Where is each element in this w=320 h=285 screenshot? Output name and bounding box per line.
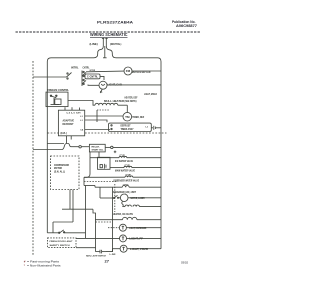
dispenser feed bus — [112, 187, 114, 251]
left feeder to valves — [89, 152, 91, 174]
svg-text:LIGHT, FRZR: LIGHT, FRZR — [130, 248, 148, 251]
inline connector pair — [96, 250, 107, 254]
svg-text:DEFROST: DEFROST — [121, 126, 132, 128]
svg-text:UPPER: UPPER — [90, 70, 96, 72]
wire bottom link — [53, 221, 73, 223]
jog to dispenser valve row — [84, 174, 90, 177]
long feeder to lower section — [85, 186, 87, 239]
svg-text:03/02: 03/02 — [181, 260, 188, 264]
freezer control box — [46, 92, 68, 107]
wire cross run — [62, 208, 93, 210]
svg-text:MOTOR EVAP FAN: MOTOR EVAP FAN — [132, 70, 151, 74]
wire feeder C — [95, 220, 97, 248]
wire control to evap fan — [86, 70, 124, 73]
svg-text:SAFETY SWITCH: SAFETY SWITCH — [50, 244, 70, 247]
timer motor riser — [126, 105, 128, 112]
svg-text:TIMER, DEF: TIMER, DEF — [132, 116, 144, 119]
header model number — [97, 20, 133, 24]
adaptive defrost control board — [58, 110, 84, 136]
svg-text:NATL LIGHT SWITCH: NATL LIGHT SWITCH — [86, 255, 106, 258]
wire adc branch — [33, 149, 62, 151]
left cabinet dashed boundary — [32, 61, 34, 255]
cabinet light — [99, 81, 107, 89]
dashed link to dispenser bus — [96, 221, 113, 223]
drain hook below light — [100, 89, 102, 93]
wire relay down to compressor — [98, 152, 100, 157]
svg-text:(TYP): (TYP) — [123, 184, 129, 186]
svg-text:WIRING SCHEMATIC: WIRING SCHEMATIC — [90, 32, 128, 37]
wires ff light — [76, 237, 161, 239]
svg-text:START SOL: START SOL — [92, 148, 105, 151]
feeder drop — [83, 177, 85, 185]
svg-text:= Non-Illustrated Parts: = Non-Illustrated Parts — [27, 264, 61, 268]
ice chute heater row — [95, 217, 161, 219]
wire rail to compressor feed — [48, 143, 65, 145]
header rule — [16, 31, 201, 33]
power plug — [102, 38, 108, 46]
svg-text:(S.N. ALL): (S.N. ALL) — [54, 170, 65, 173]
svg-text:(LINE): (LINE) — [90, 42, 98, 46]
svg-text:RELAY,: RELAY, — [92, 145, 100, 148]
wire freezer control to heater — [68, 101, 95, 106]
svg-text:27: 27 — [105, 258, 110, 263]
dispenser boundary dashed — [114, 184, 116, 212]
svg-text:(NEUTRAL): (NEUTRAL) — [110, 42, 121, 46]
wire adc to timer motor — [85, 115, 123, 117]
wire feeder A — [69, 190, 71, 210]
adc bottom stub — [70, 136, 72, 140]
svg-text:CNTRL: CNTRL — [83, 66, 90, 70]
freezer light — [120, 245, 127, 252]
fresh food light — [120, 235, 127, 242]
svg-text:MOTOR: MOTOR — [54, 168, 62, 170]
wire adc pin C4 to timer box — [85, 129, 110, 131]
svg-text:DEFROST: DEFROST — [63, 123, 75, 126]
svg-text:TIMER ASSY: TIMER ASSY — [121, 128, 134, 131]
stub — [94, 186, 96, 188]
dispenser water valve row — [84, 176, 161, 177]
svg-text:LIGHT, DISPENSER: LIGHT, DISPENSER — [129, 227, 146, 230]
defrost timer box — [109, 123, 152, 131]
wire safety switch to connector — [76, 248, 96, 252]
adc pin stubs — [65, 107, 109, 110]
wire control to cab light — [88, 84, 99, 87]
svg-text:FREEZE CONTRL: FREEZE CONTRL — [47, 88, 69, 92]
cold control box — [85, 74, 100, 79]
footer legend — [24, 259, 61, 267]
mid dashed divider — [48, 132, 167, 134]
wire adc pin to timer box top — [85, 120, 107, 122]
svg-text:COMPRESSOR: COMPRESSOR — [54, 165, 69, 167]
evap fan motor — [124, 67, 132, 75]
svg-text:HEATER, ICE CHUTE: HEATER, ICE CHUTE — [113, 213, 133, 216]
wire relay to rail — [105, 146, 161, 148]
ice water valve row — [90, 156, 161, 157]
wire adc bottom down — [66, 136, 68, 144]
main water valve row — [110, 166, 161, 167]
run capacitor box — [98, 157, 111, 169]
svg-text:A06C98877: A06C98877 — [176, 24, 197, 28]
control selector contacts — [82, 71, 86, 87]
wire control box to down — [100, 76, 104, 80]
start relay box — [89, 144, 105, 152]
svg-text:MULL HEATER: MULL HEATER — [104, 100, 124, 103]
svg-text:MAIN WATER VALVE: MAIN WATER VALVE — [115, 170, 135, 173]
svg-text:(TYP): (TYP) — [120, 155, 126, 157]
defrost timer motor — [123, 112, 132, 121]
wire — [81, 146, 89, 148]
dispenser light — [119, 224, 126, 231]
svg-text:INTRL: INTRL — [71, 66, 79, 70]
header publication number — [172, 20, 197, 28]
wire evap fan to right rail — [132, 70, 161, 72]
left rail (LINE) — [46, 62, 48, 233]
wires freezer light — [106, 249, 161, 252]
svg-text:LIGHT, FF: LIGHT, FF — [129, 238, 143, 241]
right rail (NEUTRAL) — [160, 62, 162, 249]
svg-text:LIGHT, MOLD: LIGHT, MOLD — [144, 94, 157, 96]
door switch bottom left — [47, 230, 85, 234]
svg-text:L-DR: L-DR — [110, 254, 116, 256]
svg-text:(TYP): (TYP) — [126, 174, 132, 176]
icemaker solid feed — [84, 185, 95, 187]
title WIRING SCHEMATIC — [90, 32, 128, 37]
ground cross mark — [114, 151, 117, 154]
svg-text:FM: FM — [126, 69, 130, 73]
svg-text:PLRS237ZAB4A: PLRS237ZAB4A — [97, 20, 133, 24]
svg-text:ICE WATER VALVE: ICE WATER VALVE — [115, 160, 133, 163]
ground prong wire — [103, 46, 107, 58]
defrost heater row — [95, 103, 127, 105]
schematic tiny labels — [47, 42, 157, 258]
timer to overload to rail — [151, 126, 161, 130]
svg-text:LIGHT, CAB: LIGHT, CAB — [108, 83, 122, 87]
svg-text:TM: TM — [125, 115, 129, 119]
svg-text:(TYP): (TYP) — [125, 165, 131, 167]
svg-text:FRESH FOOD LIGHT: FRESH FOOD LIGHT — [50, 241, 74, 243]
svg-text:(SEE NOTE): (SEE NOTE) — [125, 101, 137, 103]
svg-text:L1 L1 CH: L1 L1 CH — [67, 112, 82, 114]
wire cab light to right rail — [107, 84, 161, 86]
wire from boundary to control cluster — [33, 76, 67, 78]
svg-text:ICEMAKER (I.M.) UNIT: ICEMAKER (I.M.) UNIT — [113, 191, 137, 194]
svg-text:MOTOR, AUGER: MOTOR, AUGER — [131, 197, 145, 200]
svg-text:HEATER, DEF: HEATER, DEF — [125, 96, 139, 99]
wires dispenser light — [108, 227, 161, 229]
compressor dashed box — [51, 156, 80, 190]
icemaker dashed feed — [84, 181, 118, 183]
solenoid bumps row — [123, 205, 162, 207]
auger motor row — [100, 187, 161, 201]
svg-text:DISPENSER WATER VALVE: DISPENSER WATER VALVE — [114, 179, 140, 182]
wire feeder B — [72, 190, 74, 223]
squiggle under auger motor — [122, 202, 124, 207]
wire jog to chute heater — [93, 209, 96, 220]
connector — [79, 146, 81, 148]
svg-text:C-CNTRL: C-CNTRL — [87, 77, 99, 79]
wire neutral side to right rail — [106, 46, 161, 62]
jog between levels — [62, 144, 79, 150]
wire to door switch — [52, 222, 54, 233]
connector — [111, 146, 113, 148]
interior control switch left — [67, 73, 72, 80]
wire line side to left rail — [47, 46, 103, 62]
light safety switch dashed box — [48, 238, 77, 248]
svg-text:(E.B.): (E.B.) — [61, 132, 67, 135]
wire adc left riser — [96, 110, 98, 122]
icemaker coil row — [95, 186, 161, 188]
